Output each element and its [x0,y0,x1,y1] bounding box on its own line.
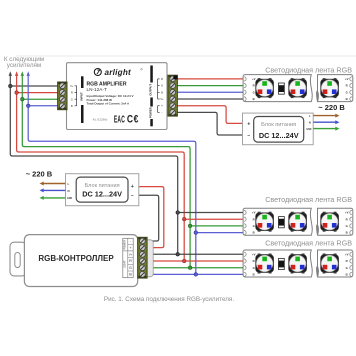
wire B into amplifier input [28,105,60,107]
svg-text:R: R [253,259,255,263]
svg-text:B: B [161,90,163,94]
wire B amplifier output to top strip [175,91,244,93]
svg-text:LIGHT: LIGHT [124,260,127,268]
RGB controller mounting ear [10,242,26,276]
svg-text:−: − [247,133,250,139]
svg-text:N: N [68,189,70,193]
svg-text:~ 220 В: ~ 220 В [318,103,345,112]
svg-text:Светодиодная лента RGB: Светодиодная лента RGB [265,238,352,247]
svg-text:G: G [346,224,348,228]
junction B tap [26,104,30,108]
wire - amplifier power from PSU1 [175,112,243,135]
mains arrows PSU1 L/N/GND [313,114,339,131]
svg-text:+V: +V [252,211,256,215]
svg-text:L: L [309,114,311,118]
power supply PSU1 (DC 12-24V) [243,113,314,145]
wire - PSU2 to controller power [139,195,159,241]
amplifier output terminal top cap [173,76,177,80]
wire V+ amplifier output to top strip [175,98,244,100]
wire B controller output to bottom strip [147,273,244,275]
junction R middle strip [182,217,186,221]
svg-text:Светодиодная лента RGB: Светодиодная лента RGB [265,65,352,74]
wire G controller output to bottom strip [147,267,244,269]
svg-text:G: G [253,266,255,270]
svg-text:Рис. 1. Схема подключения RGB-: Рис. 1. Схема подключения RGB-усилителя. [104,296,234,303]
svg-text:N: N [309,121,311,125]
svg-text:+V: +V [345,252,349,256]
svg-text:+V: +V [252,77,256,81]
wire R bus (controller output to amplifier input, red) [17,93,185,261]
svg-text:+: + [247,121,250,127]
RGB amplifier LN-12A-T body [67,63,168,130]
wire R to middle strip [184,218,243,220]
svg-text:INPUT: INPUT [79,92,83,101]
svg-text:R: R [71,91,73,95]
junction B bottom [194,273,198,277]
svg-text:DC 12...24V: DC 12...24V [259,131,299,140]
wire V+ controller output to bottom strip [147,253,244,255]
wire B to middle strip [196,232,244,234]
svg-text:B: B [253,97,255,101]
svg-text:R: R [253,217,255,221]
wire R amplifier output to top strip [175,78,244,80]
svg-text:G: G [253,90,255,94]
wire G bus (controller output to amplifier input, green) [22,99,190,268]
svg-text:G: G [161,84,163,88]
junction G tap [21,97,25,101]
wire G to middle strip [190,225,243,227]
svg-text:B: B [71,104,73,108]
LED strip RGB (top) [243,75,353,102]
svg-text:R: R [161,77,163,81]
svg-text:V+: V+ [160,97,164,101]
amplifier output terminal (6x screw) [168,75,177,116]
RGB controller body [24,235,137,287]
svg-text:GND: GND [67,198,72,200]
svg-text:G: G [346,266,348,270]
svg-text:B: B [253,273,255,277]
svg-text:-: - [161,111,162,115]
svg-text:B: B [346,97,348,101]
svg-text:POWER: POWER [124,240,127,250]
svg-text:−: − [131,193,134,199]
wire B bus (controller output to amplifier input, blue) [28,106,196,275]
controller output terminal (6x screw) [138,237,147,278]
svg-text:Светодиодная лента RGB: Светодиодная лента RGB [265,195,352,204]
svg-text:+: + [161,104,163,108]
svg-text:G: G [346,90,348,94]
junction +V middle strip [176,211,180,215]
wire G amplifier output to top strip [175,85,244,87]
power supply PSU2 (DC 12-24V) [66,174,139,206]
svg-text:L: L [68,182,70,186]
wire V+ bus (controller output to amplifier input, gray) [10,86,177,254]
svg-text:R: R [253,84,255,88]
wire R controller output to bottom strip [147,260,244,262]
svg-text:B: B [253,231,255,235]
svg-text:+V: +V [345,77,349,81]
junction R bottom [182,259,186,263]
svg-text:LN-12A-T: LN-12A-T [87,87,107,92]
svg-text:C€: C€ [127,114,139,126]
svg-text:GND: GND [306,129,311,131]
wire +V to middle strip [178,212,244,214]
svg-text:V+: V+ [129,253,133,257]
controller pin label block (POWER +/- , LIGHT V+RGB) [123,238,133,277]
svg-text:EAC: EAC [114,114,125,125]
svg-text:+V: +V [345,211,349,215]
svg-text:R: R [346,259,348,263]
controller terminal side cap [147,240,153,277]
mains arrows PSU2 L/N/GND [40,182,66,200]
svg-text:A/L-E1296b: A/L-E1296b [93,118,108,122]
arrow to next amplifiers B [27,75,29,106]
wire + PSU2 to controller power [139,187,164,248]
svg-text:Блок питания: Блок питания [85,183,120,189]
svg-text:DC 12...24V: DC 12...24V [82,190,122,199]
arrow to next amplifiers R [16,75,18,92]
wire G into amplifier input [22,98,60,100]
svg-text:V+: V+ [70,84,74,88]
wire + amplifier power from PSU1 [175,106,243,124]
svg-text:B: B [346,231,348,235]
svg-text:+: + [131,184,134,190]
svg-text:G: G [253,224,255,228]
wire R into amplifier input [17,92,60,94]
svg-text:OUTPUT: OUTPUT [149,84,153,96]
junction R tap [15,91,19,95]
svg-text:Блок питания: Блок питания [261,122,296,128]
svg-text:G: G [71,97,73,101]
junction B middle strip [194,231,198,235]
arrow to next amplifiers V+ [9,75,11,86]
svg-text:+V: +V [252,252,256,256]
svg-text:B: B [346,273,348,277]
svg-text:G: G [129,266,132,270]
LED strip RGB (bottom) [243,250,353,277]
svg-text:RGB-КОНТРОЛЛЕР: RGB-КОНТРОЛЛЕР [38,254,114,263]
junction G bottom [188,266,192,270]
svg-text:~ 220 В: ~ 220 В [26,170,53,179]
arrow to next amplifiers G [21,75,23,99]
svg-text:Total Output of Current: 3x4 A: Total Output of Current: 3x4 A [87,102,130,106]
svg-text:arlight: arlight [105,68,132,77]
wire V+ into amplifier input [10,85,60,87]
svg-text:+: + [129,246,131,250]
amplifier input terminal (4x screw) [58,82,67,110]
junction V+ bottom [176,253,180,256]
junction G middle strip [188,224,192,228]
LED strip RGB (middle) [243,208,353,235]
svg-text:R: R [346,84,348,88]
svg-text:усилителям: усилителям [7,62,41,69]
junction V+ tap [9,84,13,88]
svg-text:R: R [346,217,348,221]
svg-text:POWER: POWER [149,106,153,118]
